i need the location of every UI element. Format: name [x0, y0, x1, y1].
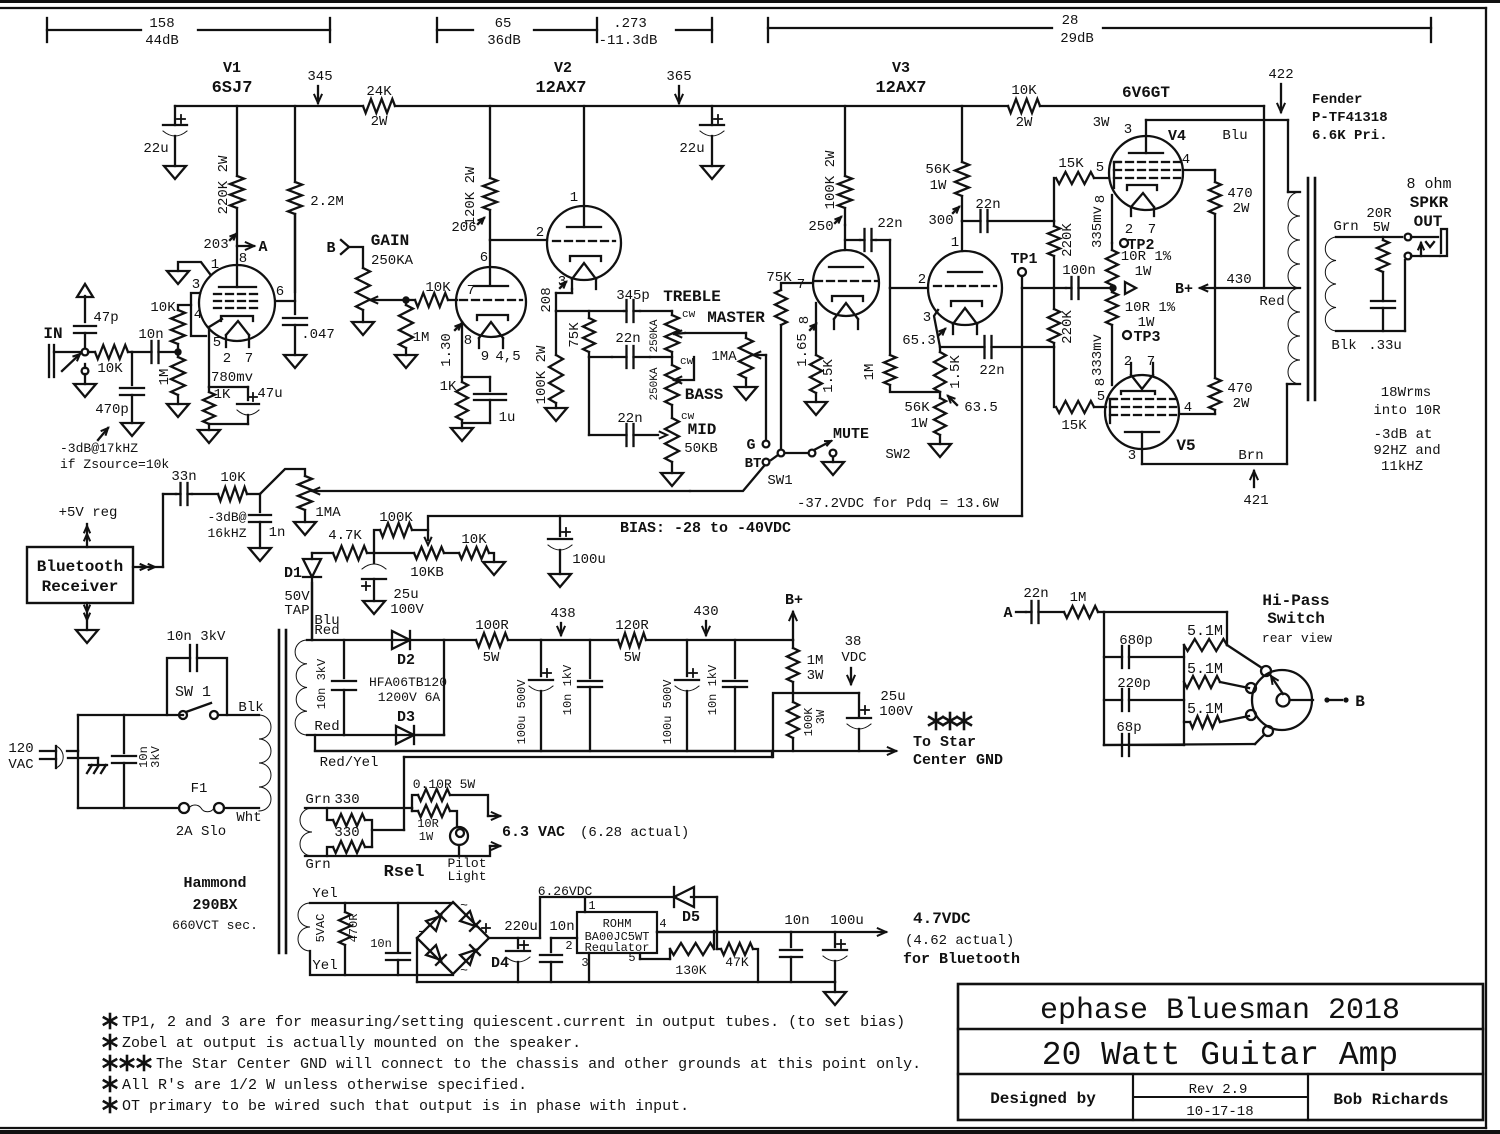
svg-text:Center GND: Center GND	[913, 752, 1003, 769]
resistor 220K (V4 grid leak)	[1048, 221, 1076, 288]
wire V4 cathode	[1090, 195, 1112, 248]
resistor 15K (V4 grid)	[1054, 156, 1109, 221]
svg-text:5: 5	[628, 951, 635, 965]
resistor 1M (hi-pass)	[1064, 590, 1104, 618]
label -37.2VDC	[797, 496, 999, 512]
svg-text:5.1M: 5.1M	[1187, 661, 1223, 678]
svg-text:Hammond: Hammond	[183, 875, 246, 892]
capacitor .33u (zobel)	[1331, 301, 1401, 354]
svg-text:100u: 100u	[830, 913, 864, 929]
wire filter node1	[541, 639, 618, 641]
svg-text:5: 5	[1096, 160, 1104, 176]
label 38 VDC arrow	[841, 634, 866, 684]
resistor 15K (V5 grid)	[1054, 347, 1106, 434]
svg-text:7: 7	[797, 277, 805, 293]
resistor 10K (input)	[88, 345, 132, 377]
svg-text:44dB: 44dB	[145, 33, 179, 49]
svg-text:6.3 VAC: 6.3 VAC	[502, 824, 565, 841]
svg-text:D3: D3	[397, 709, 415, 726]
svg-text:1.65: 1.65	[795, 333, 811, 367]
svg-text:Hi-Pass: Hi-Pass	[1262, 592, 1329, 610]
svg-text:68p: 68p	[1116, 720, 1141, 736]
svg-text:D5: D5	[682, 909, 700, 926]
tube V2b	[456, 240, 526, 365]
resistor 75K (V3a grid)	[775, 283, 813, 449]
inductor PT 6.3V winding	[300, 808, 459, 856]
svg-text:Switch: Switch	[1267, 610, 1325, 628]
node cathode B+ junction	[1109, 282, 1136, 294]
inductor PT HV secondary	[295, 640, 444, 735]
capacitor 25u 100V (bias)	[362, 553, 424, 618]
svg-text:50KB: 50KB	[684, 441, 718, 457]
svg-text:8: 8	[239, 251, 247, 267]
label V3 12AX7	[875, 60, 926, 98]
svg-text:220u: 220u	[504, 919, 538, 935]
svg-text:-3dB@: -3dB@	[207, 510, 246, 525]
svg-text:345: 345	[307, 69, 332, 85]
capacitor 47u	[209, 386, 283, 424]
resistor 20R 5W (zobel)	[1366, 206, 1392, 301]
potentiometer GAIN 250KA	[352, 268, 406, 335]
test point TP2	[1120, 237, 1155, 254]
svg-text:10KB: 10KB	[410, 565, 444, 581]
svg-text:OUT: OUT	[1414, 213, 1443, 231]
wire 4.7VDC out	[657, 928, 886, 935]
svg-text:Yel: Yel	[312, 886, 337, 902]
svg-text:3: 3	[192, 277, 200, 293]
gain dimension 158/44dB	[47, 16, 330, 49]
svg-text:120K 2W: 120K 2W	[463, 166, 479, 225]
node A hi-pass	[1003, 605, 1026, 622]
label Red bottom	[314, 719, 339, 735]
svg-text:10-17-18: 10-17-18	[1186, 1104, 1253, 1120]
label To Star Center GND	[913, 713, 1003, 769]
svg-text:-11.3dB: -11.3dB	[599, 33, 658, 49]
svg-text:if Zsource=10k: if Zsource=10k	[60, 457, 169, 472]
svg-text:1MA: 1MA	[711, 349, 737, 365]
svg-text:100K: 100K	[379, 510, 413, 526]
resistor 220K (V5 grid leak)	[1048, 288, 1076, 347]
svg-text:10n: 10n	[784, 913, 809, 929]
resistor 470 2W (V5 screen)	[1180, 288, 1253, 414]
label 365 arrow	[666, 69, 691, 103]
svg-text:22n: 22n	[617, 411, 642, 427]
resistor 24K 2W	[363, 84, 395, 130]
svg-text:1: 1	[211, 257, 219, 273]
wire Blk primary	[218, 700, 264, 716]
svg-text:Fender: Fender	[1312, 92, 1362, 108]
resistor 5.1M (1)	[1184, 612, 1227, 745]
svg-text:SW1: SW1	[767, 473, 792, 489]
svg-text:(6.28 actual): (6.28 actual)	[580, 825, 689, 841]
svg-text:To Star: To Star	[913, 734, 976, 751]
svg-text:D2: D2	[397, 652, 415, 669]
capacitor 680p (hi-pass)	[1104, 633, 1184, 668]
resistor 1K (V1 cathode)	[198, 387, 248, 443]
resistor 47K	[717, 931, 758, 982]
svg-text:3W: 3W	[1093, 115, 1110, 131]
title block	[958, 984, 1483, 1120]
svg-text:-3dB@17kHZ: -3dB@17kHZ	[60, 441, 138, 456]
wire V2b plate to V2a grid	[490, 225, 547, 241]
svg-text:~: ~	[460, 963, 468, 978]
bias supply D1	[284, 553, 340, 640]
svg-text:G: G	[746, 437, 755, 454]
svg-text:A: A	[1003, 605, 1012, 622]
svg-text:250KA: 250KA	[371, 253, 414, 269]
svg-text:1K: 1K	[214, 387, 231, 403]
svg-text:300: 300	[928, 213, 953, 229]
svg-text:5W: 5W	[624, 650, 641, 666]
svg-text:2: 2	[223, 351, 231, 367]
capacitor 10n 3kV (switch)	[167, 629, 227, 715]
capacitor 22n (V5 coupling)	[940, 336, 1054, 379]
svg-text:158: 158	[149, 16, 174, 32]
resistor 10R 1W (pilot)	[412, 805, 457, 844]
label BASS	[685, 386, 724, 404]
svg-text:38: 38	[845, 634, 862, 650]
label TREBLE	[663, 288, 721, 306]
wire star drop	[773, 693, 793, 757]
svg-text:1M: 1M	[862, 364, 878, 381]
inductor OT primary	[1287, 192, 1300, 384]
input jack	[49, 345, 96, 397]
svg-text:470R: 470R	[347, 914, 361, 943]
svg-text:1M: 1M	[807, 653, 824, 669]
svg-text:Light: Light	[447, 869, 486, 884]
transformer OT core	[1308, 178, 1315, 400]
svg-text:0.10R 5W: 0.10R 5W	[413, 777, 476, 792]
label IN	[43, 325, 62, 343]
svg-text:.33u: .33u	[1368, 338, 1402, 354]
svg-text:8: 8	[797, 316, 813, 324]
svg-text:8: 8	[1093, 378, 1109, 386]
svg-text:47p: 47p	[93, 310, 118, 326]
svg-text:MASTER: MASTER	[707, 309, 765, 327]
capacitor 220p (hi-pass)	[1104, 676, 1184, 711]
svg-text:12AX7: 12AX7	[535, 79, 586, 98]
svg-text:22n: 22n	[615, 331, 640, 347]
capacitor 10n (input)	[132, 327, 176, 363]
svg-text:203: 203	[203, 237, 228, 253]
svg-text:2W: 2W	[371, 114, 388, 130]
svg-text:29dB: 29dB	[1060, 31, 1094, 47]
svg-text:Blk: Blk	[238, 700, 263, 716]
capacitor 10n 3kV (line)	[112, 715, 163, 808]
svg-text:3: 3	[1128, 448, 1136, 464]
node junction V1 grid	[174, 348, 181, 355]
svg-text:660VCT sec.: 660VCT sec.	[172, 918, 258, 933]
label Grn bottom	[305, 857, 330, 873]
label Yel bottom	[312, 958, 337, 974]
gain dimension 28/29dB	[768, 13, 1431, 47]
svg-text:Red: Red	[1259, 294, 1284, 310]
svg-text:22n: 22n	[877, 216, 902, 232]
svg-text:10K: 10K	[425, 280, 451, 296]
wire AC neutral	[78, 751, 179, 808]
svg-text:10R 1%: 10R 1%	[1121, 249, 1172, 265]
wire B+ drop	[1263, 106, 1265, 288]
potentiometer BASS 250KA	[649, 352, 694, 405]
svg-text:B+: B+	[785, 592, 803, 609]
label V2 12AX7	[535, 60, 586, 98]
capacitor 22n (mid)	[589, 411, 658, 446]
resistor 120K 2W	[463, 106, 497, 240]
tube V4	[1109, 120, 1186, 216]
svg-text:cw: cw	[680, 356, 694, 368]
wire BT to SW1	[690, 466, 764, 491]
svg-text:1W: 1W	[1135, 264, 1152, 280]
capacitor 1u	[462, 377, 515, 426]
capacitor 1n	[249, 494, 285, 561]
svg-text:into 10R: into 10R	[1373, 403, 1441, 419]
svg-text:1M: 1M	[1070, 590, 1087, 606]
diode D2	[344, 631, 447, 735]
label Red top	[314, 623, 339, 639]
capacitor 47p	[74, 284, 119, 348]
svg-text:GAIN: GAIN	[371, 232, 409, 250]
svg-text:3W: 3W	[814, 709, 828, 724]
svg-text:333mv: 333mv	[1090, 334, 1106, 376]
resistor 75K slope	[567, 311, 595, 352]
resistor 10K (BT)	[192, 470, 260, 501]
gain dimension .273/-11.3dB	[599, 16, 712, 49]
svg-text:6SJ7: 6SJ7	[212, 79, 253, 98]
resistor 120R 5W	[615, 618, 793, 666]
svg-text:4.7VDC: 4.7VDC	[913, 910, 971, 928]
wire 6.26VDC	[538, 884, 717, 938]
svg-text:120R: 120R	[615, 618, 649, 634]
svg-text:2A Slo: 2A Slo	[176, 824, 226, 840]
fuse F1	[176, 781, 262, 840]
wire ground bus	[315, 747, 896, 830]
svg-text:VDC: VDC	[841, 650, 866, 666]
svg-text:10n: 10n	[549, 919, 574, 935]
label Hammond 290BX	[172, 875, 258, 933]
svg-text:33n: 33n	[171, 469, 196, 485]
capacitor 345p	[616, 288, 650, 322]
svg-text:TREBLE: TREBLE	[663, 288, 721, 306]
svg-text:4,5: 4,5	[495, 349, 520, 365]
svg-text:1.5K: 1.5K	[948, 355, 964, 389]
wire V2b cathode	[462, 322, 490, 377]
svg-text:SW2: SW2	[885, 447, 910, 463]
heater output arrows	[459, 812, 500, 856]
tube V3a	[766, 225, 879, 329]
resistor 1M 3W	[787, 640, 824, 693]
label MASTER	[707, 309, 765, 327]
svg-text:D1: D1	[284, 565, 302, 582]
capacitor 25u 100V (38V)	[793, 689, 913, 751]
svg-text:330: 330	[334, 792, 359, 808]
svg-text:Grn: Grn	[305, 792, 330, 808]
label 438 arrow	[550, 606, 575, 635]
svg-text:345p: 345p	[616, 288, 650, 304]
bluetooth ground	[76, 603, 98, 643]
wire bridge pos	[489, 937, 540, 939]
svg-text:P-TF41318: P-TF41318	[1312, 110, 1388, 126]
svg-text:10n: 10n	[138, 327, 163, 343]
label Grn 330 top	[305, 792, 359, 808]
svg-text:780mv: 780mv	[211, 370, 253, 386]
svg-text:V3: V3	[892, 60, 910, 77]
inductor PT primary	[259, 715, 271, 811]
label 3W	[1093, 115, 1110, 131]
svg-text:HFA06TB120: HFA06TB120	[369, 675, 447, 690]
resistor 1.5K (V3a)	[805, 303, 837, 415]
inductor PT 5V winding	[298, 903, 453, 975]
resistor 330 (top)	[327, 808, 372, 847]
resistor 100K 3W	[787, 693, 828, 751]
svg-text:470: 470	[1227, 186, 1252, 202]
svg-text:330: 330	[334, 825, 359, 841]
label V1 6SJ7	[212, 60, 253, 98]
resistor 10K (V2 grid)	[406, 280, 457, 307]
wire hi-pass node	[1104, 612, 1227, 745]
potentiometer MASTER 1MA	[685, 333, 766, 400]
node A arrow	[237, 239, 268, 256]
svg-text:Grn: Grn	[305, 857, 330, 873]
capacitor 22n (bass)	[612, 331, 650, 368]
svg-text:25u: 25u	[880, 689, 905, 705]
svg-text:SPKR: SPKR	[1410, 194, 1449, 212]
svg-text:680p: 680p	[1119, 633, 1153, 649]
svg-text:220K 2W: 220K 2W	[216, 155, 232, 214]
label 6V6GT	[1122, 84, 1170, 102]
svg-text:2: 2	[1124, 354, 1132, 370]
resistor 10R 1% (V5)	[1106, 288, 1176, 385]
svg-text:430: 430	[693, 604, 718, 620]
svg-text:5: 5	[213, 335, 221, 351]
wire fuse to primary	[224, 807, 259, 809]
wire Blu V4 plate	[1146, 120, 1288, 192]
capacitor 10n 1kV (1)	[561, 640, 602, 751]
svg-text:Red: Red	[314, 623, 339, 639]
svg-text:438: 438	[550, 606, 575, 622]
svg-text:Grn: Grn	[1333, 219, 1358, 235]
svg-text:BASS: BASS	[685, 386, 724, 404]
svg-text:(4.62 actual): (4.62 actual)	[905, 933, 1014, 949]
svg-text:10K: 10K	[461, 532, 487, 548]
speaker jack	[1405, 229, 1447, 331]
capacitor 10n (5V)	[370, 903, 410, 975]
capacitor 10n 3kV (HV)	[315, 640, 356, 735]
svg-text:24K: 24K	[366, 84, 392, 100]
wire V3a cathode label	[795, 316, 816, 367]
svg-text:28: 28	[1062, 13, 1079, 29]
svg-text:2W: 2W	[1233, 396, 1250, 412]
svg-text:Rsel: Rsel	[384, 863, 425, 882]
svg-text:Red: Red	[314, 719, 339, 735]
svg-text:IN: IN	[43, 325, 62, 343]
resistor 220K 2W	[216, 106, 244, 246]
svg-text:92HZ and: 92HZ and	[1373, 443, 1440, 459]
svg-text:100u 500V: 100u 500V	[661, 679, 675, 745]
svg-text:TP1, 2 and 3 are for measuring: TP1, 2 and 3 are for measuring/setting q…	[122, 1014, 905, 1031]
svg-text:F1: F1	[191, 781, 208, 797]
switch SW 1 (power)	[175, 684, 218, 719]
svg-text:1W: 1W	[930, 178, 947, 194]
svg-text:22u: 22u	[143, 141, 168, 157]
wire B+ to OT center tap	[1175, 272, 1300, 310]
label GAIN 250KA	[371, 232, 414, 269]
diode D3	[396, 640, 444, 744]
chassis ground	[87, 758, 107, 773]
svg-text:5W: 5W	[483, 650, 500, 666]
svg-text:3: 3	[558, 274, 566, 290]
label 5VAC	[314, 914, 328, 943]
rotary switch hi-pass	[1104, 645, 1365, 745]
svg-text:421: 421	[1243, 493, 1268, 509]
capacitor 68p (hi-pass)	[1104, 720, 1184, 756]
svg-text:22u: 22u	[679, 141, 704, 157]
wire tone mid node	[589, 352, 672, 435]
wire bridge neg	[416, 938, 418, 982]
label -3dB@16kHZ	[207, 510, 246, 541]
wire B+ rail	[175, 105, 1264, 107]
svg-text:7: 7	[467, 283, 475, 299]
tube V2a	[547, 106, 621, 289]
test point TP3	[1123, 329, 1161, 346]
note -3dB@17kHZ	[60, 428, 169, 472]
potentiometer TREBLE 250KA	[640, 309, 696, 353]
capacitor 470p	[95, 352, 144, 436]
svg-text:63.5: 63.5	[964, 400, 998, 416]
label MID 50KB	[684, 421, 718, 457]
label 430 arrow	[693, 604, 718, 635]
svg-text:20 Watt Guitar Amp: 20 Watt Guitar Amp	[1042, 1037, 1398, 1074]
svg-text:V5: V5	[1176, 437, 1195, 455]
resistor 5.1M (3)	[1184, 701, 1249, 728]
resistor 0.10R 5W	[412, 777, 488, 816]
svg-text:56K: 56K	[925, 162, 951, 178]
label 422 arrow	[1268, 67, 1293, 112]
svg-text:7: 7	[1148, 222, 1156, 238]
svg-text:10n: 10n	[370, 937, 392, 951]
capacitor 100u 500V (1)	[515, 640, 553, 751]
svg-text:Receiver: Receiver	[42, 578, 119, 596]
svg-text:22n: 22n	[1023, 586, 1048, 602]
svg-text:250KA: 250KA	[649, 367, 661, 400]
svg-text:Bluetooth: Bluetooth	[37, 558, 123, 576]
svg-text:2: 2	[565, 939, 572, 953]
capacitor 22n (hi-pass)	[1023, 586, 1064, 623]
svg-text:11kHZ: 11kHZ	[1381, 459, 1423, 475]
svg-text:1.5K: 1.5K	[821, 359, 837, 393]
resistor 10K grid stopper	[150, 300, 191, 352]
svg-text:1200V 6A: 1200V 6A	[378, 690, 441, 705]
svg-text:1M: 1M	[157, 369, 173, 386]
switch SW2 MUTE	[785, 426, 911, 475]
svg-text:1u: 1u	[499, 410, 516, 426]
svg-text:7: 7	[245, 351, 253, 367]
capacitor 100u (bias)	[548, 516, 606, 587]
svg-text:10n 3kV: 10n 3kV	[315, 658, 329, 709]
svg-text:9: 9	[481, 349, 489, 365]
svg-text:1n: 1n	[269, 525, 286, 541]
resistor 470 2W (V4 screen)	[1183, 170, 1253, 288]
wire V2a cathode out	[539, 274, 572, 313]
label 333mv	[1090, 334, 1109, 386]
svg-text:335mv: 335mv	[1090, 206, 1106, 248]
svg-text:75K: 75K	[567, 322, 583, 348]
resistor 1K (V2b)	[440, 377, 473, 441]
notes text	[104, 1014, 921, 1115]
svg-text:470p: 470p	[95, 402, 129, 418]
svg-text:ephase Bluesman 2018: ephase Bluesman 2018	[1040, 994, 1400, 1028]
capacitor 100n	[1022, 263, 1113, 299]
svg-text:12AX7: 12AX7	[875, 79, 926, 98]
